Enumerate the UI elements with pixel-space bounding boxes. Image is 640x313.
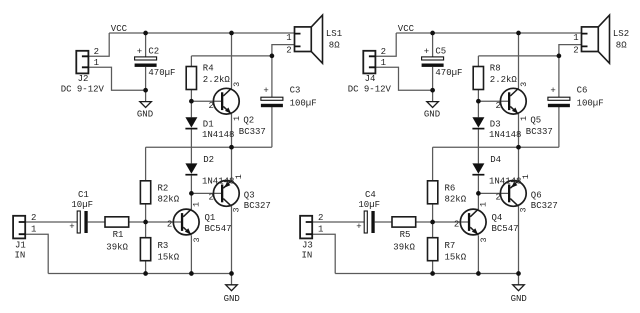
svg-text:Q5: Q5: [530, 115, 541, 125]
node ground rail / Q6 collector: [516, 271, 521, 276]
svg-text:3: 3: [518, 207, 528, 212]
ground (upper): [140, 102, 152, 108]
wire D3 anode stub: [477, 101, 479, 117]
transistor Q4 (NPN): [460, 209, 486, 235]
svg-text:39kΩ: 39kΩ: [106, 242, 128, 252]
svg-text:R1: R1: [113, 230, 124, 240]
transistor Q6 (PNP): [500, 181, 526, 207]
wire Q2 base: [191, 100, 221, 102]
svg-text:+: +: [137, 47, 142, 57]
svg-text:10µF: 10µF: [71, 200, 93, 210]
wire J4 pin 1 to GND node: [375, 67, 432, 90]
svg-text:R4: R4: [203, 64, 214, 74]
wire Q1 base: [146, 221, 181, 223]
capacitor C2: [135, 57, 157, 60]
node ground rail / R3: [143, 271, 148, 276]
wire Q3 emitter to output node: [231, 147, 233, 180]
wire R3 top stub: [145, 222, 147, 238]
wire R7 bottom stub: [432, 261, 434, 274]
capacitor C3: [261, 97, 283, 100]
svg-text:2: 2: [167, 219, 172, 229]
svg-text:IN: IN: [302, 251, 313, 261]
svg-text:39kΩ: 39kΩ: [393, 242, 415, 252]
wire J4 pin 2 to VCC rail: [375, 33, 396, 56]
wire J2 pin 1 to GND node: [88, 67, 145, 90]
node GND return: [430, 88, 435, 93]
svg-text:3: 3: [232, 82, 242, 87]
svg-text:BC337: BC337: [239, 127, 266, 137]
svg-text:C5: C5: [435, 46, 446, 56]
wire R2 bottom stub: [145, 204, 147, 222]
wire to lower ground symbol: [231, 274, 233, 285]
wire Q6 collector to ground rail: [518, 206, 520, 273]
svg-text:R6: R6: [445, 184, 456, 194]
wire D3 cathode to D4 anode: [477, 129, 479, 163]
wire output node horizontal: [146, 146, 272, 148]
wire to upper ground symbol: [432, 90, 434, 101]
node output junction: [229, 145, 234, 150]
resistor R5: [392, 217, 416, 227]
svg-text:+: +: [356, 222, 361, 232]
svg-text:1: 1: [232, 116, 242, 121]
svg-text:1N4148: 1N4148: [489, 176, 521, 186]
svg-text:2: 2: [318, 213, 323, 223]
svg-text:GND: GND: [137, 109, 153, 119]
wire Q4 base: [433, 221, 468, 223]
node Q4 base: [430, 220, 435, 225]
wire ground rail: [48, 273, 231, 275]
svg-text:+: +: [424, 47, 429, 57]
wire C6 bottom stub: [558, 107, 560, 147]
svg-text:2: 2: [286, 45, 291, 55]
wire C2 top stub: [145, 33, 147, 57]
svg-text:DC 9-12V: DC 9-12V: [61, 85, 105, 95]
svg-text:D4: D4: [490, 155, 501, 165]
svg-text:8Ω: 8Ω: [329, 40, 340, 50]
svg-text:C1: C1: [78, 190, 89, 200]
svg-text:+: +: [550, 86, 555, 96]
svg-text:LS2: LS2: [613, 29, 629, 39]
svg-text:D1: D1: [203, 120, 214, 130]
wire Q1 emitter to ground rail: [190, 235, 192, 273]
svg-text:15kΩ: 15kΩ: [445, 253, 467, 263]
wire R3 bottom stub: [145, 261, 147, 274]
svg-text:J4: J4: [365, 74, 376, 84]
svg-text:82kΩ: 82kΩ: [445, 194, 467, 204]
wire VCC rail: [396, 32, 581, 34]
svg-text:C2: C2: [148, 46, 159, 56]
wire C5 bottom stub: [432, 67, 434, 90]
node ground rail / Q4 emitter: [476, 271, 481, 276]
wire R2 top stub: [145, 147, 147, 181]
transistor Q1 (NPN): [173, 209, 199, 235]
svg-text:GND: GND: [424, 109, 440, 119]
wire Q3 base: [191, 192, 221, 194]
svg-text:C6: C6: [577, 86, 588, 96]
svg-text:Q3: Q3: [244, 190, 255, 200]
svg-text:D2: D2: [203, 155, 214, 165]
speaker LS1: [295, 27, 312, 52]
node Q1 base: [143, 220, 148, 225]
connector J3 (audio input): [300, 216, 312, 239]
wire output node horizontal: [433, 146, 559, 148]
svg-text:100µF: 100µF: [290, 98, 317, 108]
diode D2: [185, 163, 197, 173]
svg-text:1: 1: [234, 174, 244, 179]
svg-text:1: 1: [318, 225, 323, 235]
svg-text:2.2kΩ: 2.2kΩ: [490, 75, 518, 85]
diode D3: [472, 117, 484, 127]
svg-text:470µF: 470µF: [435, 68, 462, 78]
svg-text:R3: R3: [158, 241, 169, 251]
wire J1 pin 1 to ground rail: [25, 234, 48, 273]
resistor R7: [428, 238, 438, 261]
wire D4 cathode stub: [477, 176, 479, 194]
wire R8 to C6 top (bootstrap): [478, 55, 559, 57]
svg-text:R2: R2: [158, 184, 169, 194]
connector J2 (DC input): [76, 51, 88, 74]
svg-text:Q1: Q1: [205, 213, 216, 223]
svg-text:BC337: BC337: [526, 127, 553, 137]
svg-text:2.2kΩ: 2.2kΩ: [203, 75, 231, 85]
svg-text:82kΩ: 82kΩ: [158, 194, 180, 204]
svg-text:D3: D3: [490, 120, 501, 130]
svg-text:Q2: Q2: [243, 115, 254, 125]
wire C4 to R5: [375, 221, 392, 223]
svg-text:+: +: [263, 86, 268, 96]
svg-text:BC327: BC327: [244, 201, 271, 211]
svg-text:2: 2: [496, 193, 501, 203]
capacitor C1: [77, 211, 80, 233]
transistor Q5 (NPN): [500, 88, 526, 114]
resistor R1: [105, 217, 129, 227]
wire C1 to R1: [88, 221, 105, 223]
wire Q6 emitter to output node: [518, 147, 520, 180]
svg-text:Q6: Q6: [531, 190, 542, 200]
node Q6 base / Q4 collector: [476, 191, 481, 196]
capacitor C5: [422, 57, 444, 60]
ground (upper): [427, 102, 439, 108]
node ground rail / R7: [430, 271, 435, 276]
svg-text:GND: GND: [224, 294, 240, 304]
node bootstrap / speaker LS2: [557, 54, 562, 59]
svg-text:3: 3: [231, 207, 241, 212]
wire R8 bottom stub: [477, 90, 479, 102]
wire VCC rail: [109, 32, 294, 34]
resistor R2: [140, 181, 150, 204]
node ground rail / Q1 emitter: [189, 271, 194, 276]
wire R4 bottom stub: [190, 90, 192, 102]
svg-text:J1: J1: [15, 241, 26, 251]
svg-text:IN: IN: [15, 251, 26, 261]
svg-text:2: 2: [209, 193, 214, 203]
svg-text:2: 2: [573, 45, 578, 55]
wire R4 to C3 top (bootstrap): [191, 55, 272, 57]
svg-text:2: 2: [209, 101, 214, 111]
ground (lower): [226, 285, 238, 291]
svg-text:1N4148: 1N4148: [489, 130, 521, 140]
wire ground rail: [335, 273, 518, 275]
wire Q2 emitter to output node: [231, 114, 233, 147]
connector J4 (DC input): [363, 51, 375, 74]
svg-text:1: 1: [94, 58, 99, 68]
node Q5 base / D3: [476, 99, 481, 104]
wire speaker LS1 pin 2: [272, 45, 295, 56]
svg-text:+: +: [69, 222, 74, 232]
wire R8 top stub: [477, 56, 479, 67]
speaker LS2: [582, 27, 599, 52]
wire Q4 emitter to ground rail: [477, 235, 479, 273]
wire Q4 collector stub: [477, 193, 479, 209]
svg-text:Q4: Q4: [492, 213, 503, 223]
wire Q3 collector to ground rail: [231, 206, 233, 273]
wire J3 pin 2 to C4: [312, 221, 364, 223]
svg-text:BC547: BC547: [205, 224, 232, 234]
wire C3 top stub: [271, 56, 273, 97]
svg-text:J2: J2: [78, 74, 89, 84]
svg-text:1N4148: 1N4148: [202, 176, 234, 186]
svg-text:GND: GND: [511, 294, 527, 304]
svg-text:10µF: 10µF: [358, 200, 380, 210]
svg-text:2: 2: [31, 213, 36, 223]
wire D1 anode stub: [190, 101, 192, 117]
svg-text:R8: R8: [490, 64, 501, 74]
svg-text:VCC: VCC: [398, 24, 415, 34]
wire Q5 emitter to output node: [518, 114, 520, 147]
wire R7 top stub: [432, 222, 434, 238]
node VCC / Q2 collector: [229, 31, 234, 36]
svg-text:8Ω: 8Ω: [616, 40, 627, 50]
svg-text:3: 3: [519, 82, 529, 87]
resistor R3: [140, 238, 150, 261]
svg-text:1: 1: [573, 33, 578, 43]
wire R5 to Q4 base node: [416, 221, 433, 223]
diode D1: [185, 117, 197, 127]
svg-text:100µF: 100µF: [577, 98, 604, 108]
wire Q2 collector to VCC: [231, 33, 233, 88]
svg-text:DC 9-12V: DC 9-12V: [348, 85, 392, 95]
node GND return: [143, 88, 148, 93]
svg-text:1: 1: [479, 202, 489, 207]
node VCC / C2: [143, 31, 148, 36]
resistor R4: [186, 67, 196, 90]
svg-text:R7: R7: [445, 241, 456, 251]
svg-text:470µF: 470µF: [148, 68, 175, 78]
svg-text:2: 2: [496, 101, 501, 111]
wire D1 cathode to D2 anode: [190, 129, 192, 163]
node VCC / Q5 collector: [516, 31, 521, 36]
ground (lower): [513, 285, 525, 291]
wire Q5 collector to VCC: [518, 33, 520, 88]
connector J1 (audio input): [13, 216, 25, 239]
capacitor C4: [364, 211, 367, 233]
transistor Q3 (PNP): [213, 181, 239, 207]
node bootstrap / speaker LS1: [270, 54, 275, 59]
wire to upper ground symbol: [145, 90, 147, 101]
svg-text:VCC: VCC: [111, 24, 128, 34]
svg-text:2: 2: [94, 47, 99, 57]
node Q2 base / D1: [189, 99, 194, 104]
svg-text:LS1: LS1: [326, 29, 342, 39]
diode D4: [472, 163, 484, 173]
wire C6 top stub: [558, 56, 560, 97]
wire to lower ground symbol: [518, 274, 520, 285]
svg-text:1: 1: [519, 116, 529, 121]
svg-text:15kΩ: 15kΩ: [158, 253, 180, 263]
node ground rail / Q3 collector: [229, 271, 234, 276]
wire Q5 base: [478, 100, 508, 102]
wire J2 pin 2 to VCC rail: [88, 33, 109, 56]
svg-text:1: 1: [192, 202, 202, 207]
svg-text:BC327: BC327: [531, 201, 558, 211]
node Q3 base / Q1 collector: [189, 191, 194, 196]
svg-text:1: 1: [521, 174, 531, 179]
wire C2 bottom stub: [145, 67, 147, 90]
wire C3 bottom stub: [271, 107, 273, 147]
wire C5 top stub: [432, 33, 434, 57]
wire speaker LS2 pin 2: [559, 45, 582, 56]
svg-text:C4: C4: [365, 190, 376, 200]
wire R6 top stub: [432, 147, 434, 181]
svg-text:J3: J3: [302, 241, 313, 251]
wire Q6 base: [478, 192, 508, 194]
svg-text:3: 3: [192, 237, 202, 242]
svg-text:3: 3: [479, 237, 489, 242]
wire R4 top stub: [190, 56, 192, 67]
svg-text:2: 2: [381, 47, 386, 57]
wire J1 pin 2 to C1: [25, 221, 77, 223]
svg-text:1: 1: [286, 33, 291, 43]
resistor R8: [473, 67, 483, 90]
node VCC / C5: [430, 31, 435, 36]
svg-text:1N4148: 1N4148: [202, 130, 234, 140]
wire J3 pin 1 to ground rail: [312, 234, 335, 273]
svg-text:C3: C3: [290, 86, 301, 96]
wire Q1 collector stub: [190, 193, 192, 209]
svg-text:1: 1: [31, 225, 36, 235]
svg-text:1: 1: [381, 58, 386, 68]
wire R1 to Q1 base node: [129, 221, 146, 223]
wire R6 bottom stub: [432, 204, 434, 222]
transistor Q2 (NPN): [213, 88, 239, 114]
svg-text:R5: R5: [400, 230, 411, 240]
svg-text:2: 2: [454, 219, 459, 229]
resistor R6: [428, 181, 438, 204]
svg-text:BC547: BC547: [492, 224, 519, 234]
node output junction: [516, 145, 521, 150]
wire D2 cathode stub: [190, 176, 192, 194]
capacitor C6: [548, 97, 570, 100]
